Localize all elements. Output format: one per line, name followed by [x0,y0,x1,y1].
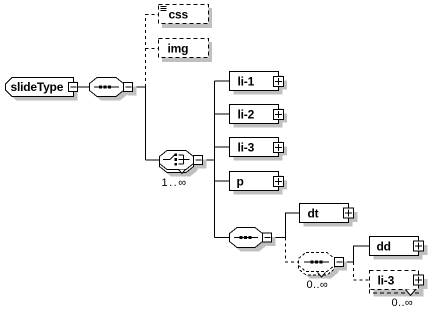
element li-3 (optional repeating 0..inf, bottom) [370,271,428,297]
svg-text:dt: dt [308,207,319,221]
wire choice to trunk [203,159,215,161]
svg-text:dd: dd [377,240,391,254]
wire branch to li-3 [215,146,230,148]
wire into choice [146,159,160,161]
svg-text:p: p [237,175,244,189]
wire branch to p [215,180,230,182]
label 1..inf [162,177,188,189]
wire branch to li-1 [215,80,230,82]
wire fork2 up to dd [354,246,370,262]
svg-text:li-3: li-3 [238,141,255,155]
choice compositor (repeating 1..inf) [160,151,207,177]
element css (optional) [159,5,213,29]
svg-text:slideType: slideType [11,80,64,94]
element img (optional) [159,39,213,63]
wire sequence to junction [133,86,146,88]
wire dashed fork2 down to li-3 optional [354,262,370,280]
svg-text:0..∞: 0..∞ [307,279,329,291]
svg-text:1..∞: 1..∞ [162,177,188,189]
wire sequence3 to fork2 [343,261,354,263]
wire slideType to sequence [78,86,90,88]
element li-3 [230,138,288,161]
wire solid vertical junction down to choice [145,87,147,160]
svg-text:li-1: li-1 [238,75,255,89]
svg-text:li-2: li-2 [238,108,255,122]
wire dashed fork1 down to sequence3 [286,238,299,263]
wire dashed vertical junction up to css/img [145,14,147,87]
element li-2 [230,105,288,128]
label 0..inf (sequence3) [307,279,329,291]
wire sequence2 to fork1 [272,237,286,239]
svg-text:img: img [168,42,189,56]
svg-text:css: css [169,8,189,22]
element li-1 [230,72,288,95]
element dd [370,237,428,260]
wire dashed branch to css [146,14,159,16]
sequence compositor 3 (optional repeating 0..inf, dashed) [299,253,348,279]
wire trunk vertical [214,81,216,238]
element p [230,172,288,195]
label 0..inf (li-3) [392,297,414,309]
wire fork1 up to dt [286,213,300,238]
sequence compositor (top) [90,78,137,101]
element dt [300,204,358,227]
wire branch to li-2 [215,113,230,115]
sequence compositor 2 (dt/dd group) [230,228,276,252]
element slideType (root) [6,78,78,101]
svg-text:li-3: li-3 [378,274,395,288]
wire branch to sequence2 [215,237,230,239]
svg-text:0..∞: 0..∞ [392,297,414,309]
wire dashed branch to img [146,48,159,50]
